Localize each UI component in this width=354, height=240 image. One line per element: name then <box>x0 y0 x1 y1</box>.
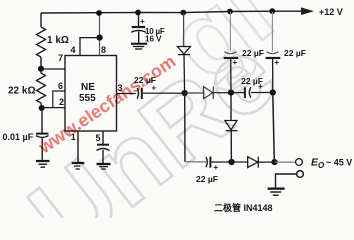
svg-text:0.01 µF: 0.01 µF <box>3 132 34 142</box>
capacitor C4 22uF vertical <box>224 52 239 58</box>
wire left vertical top (rail to R1) <box>40 13 42 27</box>
node A <box>38 66 44 72</box>
svg-text:3: 3 <box>118 83 123 93</box>
wire top +12V rail <box>41 11 302 13</box>
svg-text:1 kΩ: 1 kΩ <box>47 35 69 46</box>
svg-text:7: 7 <box>58 53 63 63</box>
node B <box>39 105 45 111</box>
ground G5 <box>131 44 147 49</box>
resistor R2 22 kOhm <box>37 69 46 108</box>
node G <box>271 159 277 165</box>
svg-text:555: 555 <box>79 93 96 104</box>
capacitor C5 22uF horizontal <box>245 87 251 98</box>
svg-text:~ 45 V: ~ 45 V <box>326 158 352 168</box>
wire rail to capA <box>229 12 231 52</box>
wire R1 to node A <box>40 57 42 69</box>
wire pin 8 vertical from rail <box>99 13 101 56</box>
svg-text:2: 2 <box>59 97 64 107</box>
svg-text:8: 8 <box>101 45 106 55</box>
arrowhead +12V <box>301 7 314 15</box>
svg-text:16 V: 16 V <box>145 35 162 44</box>
svg-text:4: 4 <box>71 45 76 55</box>
svg-text:6: 6 <box>58 81 63 91</box>
svg-text:二极管 IN4148: 二极管 IN4148 <box>214 202 273 213</box>
terminal ground <box>297 171 304 178</box>
ground G2 <box>36 161 50 167</box>
capacitor pin5 bypass <box>97 145 110 151</box>
svg-text:+: + <box>140 17 145 26</box>
node F <box>229 159 235 165</box>
wire node F to D4 <box>232 161 248 163</box>
diode D3 down <box>225 121 238 131</box>
svg-text:+: + <box>152 84 157 93</box>
wire node C down left branch <box>184 93 186 162</box>
wire node C to D2 <box>185 92 204 94</box>
wire node B to pin 2 <box>42 107 65 109</box>
svg-text:+: + <box>258 82 263 91</box>
svg-text:22 µF: 22 µF <box>196 174 218 184</box>
wire D1 to node C <box>183 55 186 93</box>
svg-text:5: 5 <box>96 133 101 143</box>
wire C3 to node C <box>143 92 185 94</box>
wire rail to C 10uF <box>138 13 140 26</box>
op-amp U1 NE555 box <box>65 56 117 132</box>
wire pin 6 jog <box>53 91 65 108</box>
diode D1 down <box>177 47 190 55</box>
svg-text:22 kΩ: 22 kΩ <box>8 86 35 97</box>
resistor R1 1 kOhm <box>37 27 46 57</box>
wire node D to C5 <box>231 92 245 94</box>
svg-text:22 µF: 22 µF <box>242 48 264 58</box>
wire cap to ground <box>41 138 43 161</box>
node rail capB <box>269 8 275 14</box>
node D <box>228 90 234 96</box>
svg-text:+: + <box>233 58 238 67</box>
wire D2 to node D <box>213 92 231 94</box>
wire pin 1 down <box>77 131 79 162</box>
svg-text:+: + <box>275 58 280 67</box>
wire C7 to node F <box>211 161 231 163</box>
node rail capA <box>227 9 233 15</box>
wire bottom left horizontal <box>185 161 206 163</box>
wire pin 3 <box>117 93 136 95</box>
node rail x99 <box>96 10 102 16</box>
node rail diode branch <box>180 10 186 16</box>
wire node A to pin 7 <box>41 68 65 70</box>
wire pin 4 jog <box>80 38 100 56</box>
ground G3 pin1 <box>72 163 85 169</box>
wire capB to node E <box>272 59 274 93</box>
svg-text:NE: NE <box>81 82 95 93</box>
wire node D to D3 <box>230 93 232 121</box>
wire node E down to node G <box>273 93 275 163</box>
svg-text:1: 1 <box>71 132 76 142</box>
wire D4 to node G <box>258 161 274 163</box>
diode D2 right <box>204 87 214 100</box>
wire cap to ground <box>138 32 140 44</box>
svg-text:22 µF: 22 µF <box>284 48 306 58</box>
wire node G to output terminal <box>275 161 296 163</box>
wire D3 to node F <box>230 131 232 162</box>
node E <box>270 89 276 95</box>
wire node B down <box>41 108 43 133</box>
wire C5 to node E <box>251 92 273 94</box>
diode D4 right <box>248 157 259 168</box>
ground G6 <box>268 189 285 196</box>
terminal E_O <box>296 159 303 166</box>
capacitor C6 22uF vertical <box>266 52 281 58</box>
wire ground terminal to ground <box>276 174 297 188</box>
svg-text:+: + <box>214 163 219 172</box>
node C <box>182 90 188 96</box>
svg-text:+12 V: +12 V <box>319 7 343 17</box>
node pin4/8 junction <box>97 35 103 41</box>
capacitor 10uF 16V <box>131 27 146 32</box>
wire pin 5 down <box>102 131 104 144</box>
wire rail to capB <box>271 12 273 52</box>
wire capA to node D <box>230 59 232 93</box>
ground G4 pin5 <box>97 164 111 169</box>
capacitor C7 22uF bottom <box>206 157 211 168</box>
wire cap to ground <box>102 150 104 163</box>
capacitor 0.01 uF <box>36 134 49 138</box>
node rail 10uF <box>135 10 141 16</box>
wire rail to D1 <box>183 13 185 47</box>
capacitor C3 22uF coupling <box>137 88 142 99</box>
